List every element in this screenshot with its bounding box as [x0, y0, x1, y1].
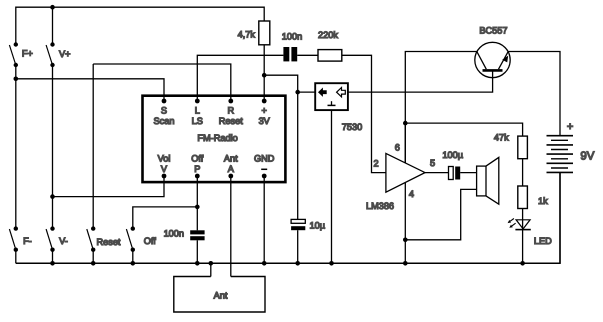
resistor R1 4,7k: [259, 21, 270, 45]
pin GND dot: [262, 174, 267, 179]
wire F- to bus: [15, 250, 17, 264]
svg-text:F-: F-: [23, 236, 32, 246]
switch Off: [126, 226, 135, 251]
svg-text:Scan: Scan: [154, 116, 175, 126]
speaker LS1: [477, 157, 499, 204]
wire 100n to 220k: [297, 54, 318, 56]
svg-text:FM-Radio: FM-Radio: [197, 133, 237, 143]
svg-text:V+: V+: [59, 49, 71, 59]
svg-text:220k: 220k: [318, 30, 338, 40]
svg-text:LM386: LM386: [366, 201, 394, 211]
wire V column: [52, 65, 54, 229]
wire Vol pin to V column: [53, 176, 165, 197]
svg-text:Reset: Reset: [219, 116, 243, 126]
wire C4 to bus: [196, 240, 198, 263]
node 3V branch junction: [262, 73, 267, 78]
diode D1 LED: [508, 219, 531, 230]
wire P pin chain: [196, 176, 198, 230]
svg-text:47k: 47k: [494, 133, 509, 143]
wire 47k feed: [405, 123, 522, 136]
resistor R3 47k: [518, 136, 528, 159]
svg-text:L: L: [195, 106, 200, 116]
wire Reset to bus: [92, 250, 94, 264]
wire Off to P pin net: [133, 207, 198, 229]
resistor R4 1k: [518, 186, 528, 209]
node pin4 bus junction: [403, 261, 408, 266]
wire S-net to chip pin S: [16, 79, 164, 101]
switch V-: [46, 226, 55, 251]
svg-text:5: 5: [430, 158, 435, 168]
capacitor C4 100n: [190, 230, 204, 240]
wire F- column: [15, 79, 17, 229]
wire speaker return: [405, 189, 476, 239]
switch F+: [9, 42, 18, 67]
wire R-net to chip pin R: [93, 64, 231, 101]
wire 220k to LM386 input: [342, 55, 386, 172]
svg-text:4: 4: [409, 189, 414, 199]
node Off bus junction: [131, 261, 136, 266]
wire GND pin to bus: [263, 176, 265, 263]
svg-text:+: +: [567, 121, 573, 133]
wire top rail: [16, 7, 264, 44]
pin A dot: [228, 174, 233, 179]
svg-text:9V: 9V: [580, 151, 594, 163]
svg-text:100µ: 100µ: [442, 150, 463, 160]
node V junction: [50, 194, 55, 199]
icon 7530 ground mark: [328, 101, 336, 105]
wire Reset column from R-net: [92, 64, 94, 229]
capacitor C3 100u: [449, 167, 461, 180]
wire to 7530 input: [298, 91, 316, 93]
svg-text:LED: LED: [534, 236, 552, 246]
node GND pin bus junction: [262, 261, 267, 266]
svg-text:A: A: [228, 164, 235, 174]
wire 100u to speaker: [460, 172, 476, 174]
node top-rail V+ junction: [50, 5, 55, 10]
pin R dot: [228, 99, 233, 104]
svg-text:Off: Off: [144, 236, 157, 246]
antenna box Ant: [174, 277, 265, 313]
node 7530 input junction: [295, 90, 300, 95]
svg-text:V-: V-: [59, 236, 68, 246]
node V- bus junction: [50, 261, 55, 266]
wire Off to bus: [132, 250, 134, 264]
capacitor C1 100n: [283, 47, 297, 61]
svg-text:Ant: Ant: [224, 154, 238, 164]
node 10u bus junction: [295, 261, 300, 266]
wire pin 6 supply: [404, 123, 406, 163]
svg-text:100n: 100n: [282, 31, 302, 41]
svg-text:Ant: Ant: [214, 291, 228, 301]
wire Q1 collector net: [405, 52, 477, 163]
capacitor C2 10u: [291, 219, 305, 230]
svg-text:3V: 3V: [259, 116, 271, 126]
svg-text:S: S: [161, 106, 167, 116]
op-amp U3 LM386: [386, 153, 425, 192]
svg-text:R: R: [227, 106, 234, 116]
node Reset bus junction: [91, 261, 96, 266]
wire 10u to bus: [297, 230, 299, 263]
pin 3V dot: [262, 99, 267, 104]
svg-text:BC557: BC557: [479, 26, 507, 36]
pin V dot: [162, 174, 167, 179]
wire pin 5 output: [425, 172, 449, 174]
pin L dot: [195, 99, 200, 104]
svg-text:+: +: [262, 106, 267, 116]
wire F+ bottom to S-net: [15, 65, 17, 79]
resistor R2 220k: [318, 50, 342, 62]
wire V+ drop from rail: [52, 7, 54, 44]
wire antenna stub: [210, 263, 212, 276]
node 7530 bus junction: [329, 261, 334, 266]
svg-text:4,7k: 4,7k: [238, 29, 256, 39]
wire Q1 emitter to battery: [508, 52, 560, 136]
svg-text:Vol: Vol: [158, 154, 171, 164]
pin S dot: [162, 99, 167, 104]
chip U1 FM-Radio: [143, 96, 286, 182]
svg-text:Reset: Reset: [96, 237, 120, 247]
wire A pin to antenna: [230, 176, 232, 277]
node LED bus junction: [520, 261, 525, 266]
switch F-: [9, 226, 18, 251]
svg-text:1k: 1k: [538, 196, 548, 206]
node antenna stub junction: [209, 261, 214, 266]
wire ground bus: [16, 172, 560, 263]
wire battery to bus: [559, 172, 561, 263]
svg-text:Off: Off: [191, 154, 204, 164]
wire V- to bus: [52, 250, 54, 264]
svg-text:100n: 100n: [164, 229, 184, 239]
icon 7530 filled arrow: [318, 88, 327, 97]
svg-text:P: P: [194, 164, 200, 174]
svg-text:2: 2: [373, 159, 378, 169]
svg-text:GND: GND: [254, 154, 275, 164]
wire L pin to 100n: [197, 55, 283, 101]
ic U2 7530 box: [315, 83, 348, 110]
switch Reset: [87, 226, 96, 251]
node P Off junction: [195, 205, 200, 210]
icon 7530 hollow arrow: [337, 88, 346, 97]
svg-text:7530: 7530: [342, 122, 362, 132]
svg-text:10µ: 10µ: [310, 220, 326, 230]
wire 3V branch to 10u column: [264, 75, 298, 219]
svg-text:V: V: [161, 164, 168, 174]
node F junction: [14, 77, 19, 82]
switch V+: [46, 42, 55, 67]
wire 47k to 1k: [522, 159, 524, 186]
wire 1k to LED: [522, 209, 524, 264]
svg-text:6: 6: [395, 142, 400, 152]
node pin4 speaker junction: [403, 238, 408, 243]
svg-text:F+: F+: [22, 49, 33, 59]
label pin minus: [261, 168, 267, 170]
node collector 47k junction: [403, 121, 408, 126]
transistor Q1 BC557: [475, 42, 510, 77]
svg-text:LS: LS: [192, 116, 203, 126]
wire 4,7k to 3V pin: [263, 45, 265, 101]
wire 7530 output to Q1 base: [348, 72, 493, 93]
node C4 bus junction: [195, 261, 200, 266]
pin P dot: [195, 174, 200, 179]
wire 7530 to ground bus: [331, 110, 333, 263]
wire pin 4 ground: [404, 183, 406, 263]
battery B1 9V: [547, 136, 574, 173]
